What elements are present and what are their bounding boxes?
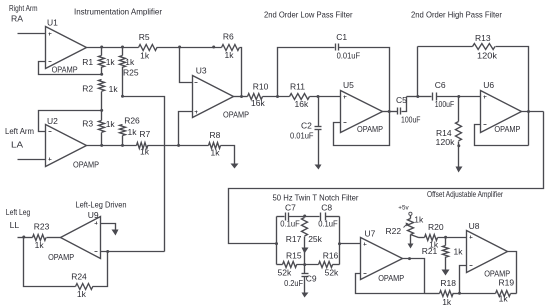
svg-text:R26: R26 (124, 116, 140, 126)
resistor R21 (445, 238, 447, 246)
svg-text:R6: R6 (223, 31, 234, 41)
svg-text:U2: U2 (47, 116, 58, 126)
svg-text:R11: R11 (290, 82, 305, 92)
svg-text:OPAMP: OPAMP (48, 253, 74, 262)
svg-text:25k: 25k (308, 234, 322, 244)
resistor R14 (458, 97, 460, 122)
wire U6 feedback loop (475, 125, 529, 146)
wire U6 output (522, 111, 544, 113)
node C7-C8 junction (303, 215, 306, 218)
op-amp U5 (341, 91, 383, 133)
wire R11 to U5 (310, 96, 341, 98)
svg-text:OPAMP: OPAMP (73, 160, 99, 169)
wire R13 top line (418, 46, 473, 48)
wire U9 inv line (101, 251, 165, 253)
wire U1 feedback (39, 62, 102, 75)
resistor R18 (425, 293, 440, 295)
node R1-R2 junction (100, 73, 103, 76)
capacitor C6 (418, 96, 432, 98)
resistor R15 (277, 264, 283, 266)
svg-text:R19: R19 (499, 278, 515, 288)
wire U9 noninv to ground (101, 224, 116, 230)
node U7 out junction (408, 257, 411, 260)
capacitor C8 (320, 213, 322, 221)
svg-text:R8: R8 (210, 130, 221, 140)
wire U7 feedback loop (356, 274, 425, 294)
wire U1 output line (87, 47, 139, 49)
resistor R19 (460, 293, 496, 295)
svg-text:0.1uF: 0.1uF (280, 219, 300, 229)
resistor R20 (419, 237, 425, 239)
wire U8 output (508, 252, 517, 294)
wire common-mode sense (123, 97, 165, 252)
op-amp U2 (46, 125, 87, 167)
node U5 out junction (388, 110, 391, 113)
op-amp U7 (361, 238, 403, 280)
svg-text:RA: RA (11, 13, 23, 23)
svg-text:1k: 1k (499, 293, 509, 303)
svg-text:1k: 1k (225, 50, 235, 60)
wire R7 to R8 (148, 145, 209, 147)
resistor R26 (120, 125, 126, 136)
resistor R23 (33, 235, 46, 241)
node R25-R26 junction (121, 95, 124, 98)
resistor R16 (319, 262, 333, 268)
svg-text:2nd Order Low Pass Filter: 2nd Order Low Pass Filter (264, 10, 353, 20)
svg-text:C7: C7 (285, 203, 296, 213)
svg-text:0.1uF: 0.1uF (318, 219, 338, 229)
wire U3 inv feedback (180, 48, 193, 83)
node R18-R19 junction (458, 292, 461, 295)
svg-text:R16: R16 (323, 251, 339, 261)
svg-text:R25: R25 (123, 68, 139, 78)
svg-text:U3: U3 (196, 65, 207, 75)
resistor R11 (290, 94, 310, 100)
svg-text:OPAMP: OPAMP (223, 110, 249, 119)
node R2-R3 junction (100, 109, 103, 112)
ground R14 (456, 167, 463, 173)
svg-text:R10: R10 (253, 82, 269, 92)
wire U5 output (383, 111, 390, 113)
svg-text:R23: R23 (34, 222, 50, 232)
svg-text:120k: 120k (436, 137, 456, 147)
wire U3 noninv input (179, 112, 193, 146)
svg-text:1k: 1k (140, 51, 150, 61)
svg-text:R21: R21 (422, 246, 438, 256)
svg-text:C5: C5 (396, 95, 407, 105)
wire R13 to output (496, 47, 529, 146)
capacitor C1 (278, 48, 335, 97)
node U6 out junction (527, 110, 530, 113)
svg-text:R18: R18 (440, 278, 456, 288)
svg-text:1k: 1k (109, 84, 119, 94)
node R26 bottom junction (121, 144, 124, 147)
svg-text:1k: 1k (128, 127, 138, 137)
svg-text:R3: R3 (82, 118, 93, 128)
svg-text:1k: 1k (211, 148, 221, 158)
svg-text:100uF: 100uF (435, 99, 455, 109)
svg-text:R24: R24 (71, 272, 87, 282)
svg-text:OPAMP: OPAMP (357, 125, 383, 134)
svg-text:U5: U5 (343, 80, 354, 90)
svg-text:C8: C8 (321, 203, 332, 213)
svg-text:1k: 1k (35, 240, 45, 250)
svg-text:C1: C1 (336, 32, 347, 42)
svg-text:LL: LL (10, 220, 20, 230)
resistor R3 (101, 111, 103, 121)
wire HPF feedback riser (407, 96, 418, 98)
svg-text:1k: 1k (106, 119, 116, 129)
node R20-R21 junction (444, 236, 447, 239)
resistor R24 (76, 284, 93, 290)
svg-text:U1: U1 (47, 17, 58, 27)
svg-text:1k: 1k (77, 289, 87, 299)
svg-text:52k: 52k (278, 268, 292, 278)
svg-text:1k: 1k (454, 247, 464, 257)
svg-text:0.01uF: 0.01uF (290, 131, 314, 141)
resistor R25 (122, 48, 124, 56)
potentiometer R22 (410, 216, 412, 219)
wire twin-T right rail (339, 217, 341, 265)
wire RA input (18, 33, 46, 35)
svg-text:OPAMP: OPAMP (52, 65, 78, 74)
svg-text:U6: U6 (483, 80, 494, 90)
ground C9 (302, 293, 309, 298)
node R25 top junction (121, 46, 124, 49)
wire U5 feedback loop (334, 112, 390, 146)
wire U2 output line (87, 145, 137, 147)
wire U8 inv input (460, 266, 467, 294)
wire LA input (18, 159, 46, 161)
resistor R5 (139, 45, 157, 51)
node C1 tap junction (276, 95, 279, 98)
op-amp U6 (481, 91, 522, 133)
svg-text:0.2uF: 0.2uF (284, 278, 303, 288)
wire R8 to ground (221, 146, 235, 164)
resistor R10 (248, 94, 263, 100)
op-amp U3 (193, 76, 234, 118)
svg-text:Instrumentation Amplifier: Instrumentation Amplifier (74, 6, 162, 16)
wire R6 to U3 output (240, 48, 242, 97)
wire U2 feedback (39, 111, 102, 132)
node twin-T input (275, 242, 278, 245)
op-amp U1 (46, 27, 87, 69)
resistor R8 (209, 143, 221, 149)
wire HPF out return (229, 112, 544, 244)
svg-text:R5: R5 (139, 32, 150, 42)
wire U7 output (403, 259, 425, 294)
ground C2 (315, 165, 322, 170)
svg-text:Left-Leg Driven: Left-Leg Driven (76, 199, 127, 209)
svg-text:52k: 52k (325, 268, 339, 278)
svg-text:R13: R13 (475, 33, 491, 43)
capacitor C2 (318, 97, 320, 127)
node R14 tap (457, 95, 460, 98)
node U3 out junction (240, 95, 243, 98)
svg-text:R22: R22 (386, 226, 402, 236)
svg-text:0.01uF: 0.01uF (337, 50, 361, 60)
wire U3 output (234, 96, 248, 98)
svg-text:U8: U8 (469, 221, 480, 231)
svg-text:Left Arm: Left Arm (5, 126, 34, 136)
node U3 noninv junction (177, 144, 180, 147)
svg-text:R2: R2 (82, 83, 93, 93)
svg-text:OPAMP: OPAMP (494, 125, 520, 134)
resistor R6 (222, 45, 240, 51)
svg-text:U9: U9 (88, 210, 99, 220)
capacitor C7 (277, 216, 285, 218)
node HPF C6 tap (416, 95, 419, 98)
svg-text:R17: R17 (286, 234, 302, 244)
wire R15 to R16 (297, 264, 319, 266)
svg-text:U7: U7 (365, 228, 376, 238)
node R3 bottom junction (100, 144, 103, 147)
svg-text:R20: R20 (428, 222, 444, 232)
resistor R2 (99, 80, 105, 92)
wire R5 to R6 (157, 47, 222, 49)
svg-text:16k: 16k (251, 98, 265, 108)
resistor R7 (137, 143, 148, 149)
node C2 tap junction (317, 95, 320, 98)
svg-text:LA: LA (11, 140, 24, 150)
svg-text:1k: 1k (106, 57, 116, 67)
svg-text:R15: R15 (286, 251, 302, 261)
ground R22 (408, 244, 414, 249)
svg-text:100uF: 100uF (401, 114, 421, 124)
svg-text:120k: 120k (477, 51, 498, 61)
svg-text:C6: C6 (435, 80, 446, 90)
svg-text:1k: 1k (414, 215, 424, 225)
svg-text:1k: 1k (442, 297, 452, 307)
resistor R13 (473, 44, 496, 50)
svg-text:Offset Adjustable Amplifier: Offset Adjustable Amplifier (427, 189, 503, 199)
svg-text:R1: R1 (82, 57, 93, 67)
op-amp U8 (467, 231, 508, 273)
resistor R17 (302, 218, 308, 236)
node R14 lower junction (457, 144, 460, 147)
svg-text:1k: 1k (125, 57, 135, 67)
wire R10 to R11 (263, 96, 290, 98)
resistor R1 (101, 48, 103, 56)
wire R24 loop (24, 238, 76, 287)
ground R21 (442, 270, 450, 276)
svg-text:16k: 16k (295, 99, 309, 109)
svg-text:1k: 1k (140, 147, 150, 157)
svg-text:C2: C2 (301, 121, 312, 131)
wire twin-T out to U7 (340, 243, 361, 245)
svg-text:2nd Order High Pass Filter: 2nd Order High Pass Filter (411, 10, 502, 20)
capacitor C5 (390, 111, 398, 113)
svg-text:OPAMP: OPAMP (378, 274, 404, 283)
op-amp U9 (61, 217, 101, 259)
ground U9 (112, 230, 119, 236)
wire twin-T left rail (276, 217, 278, 265)
svg-text:50 Hz Twin T Notch Filter: 50 Hz Twin T Notch Filter (273, 192, 359, 202)
ground R8 (231, 164, 239, 169)
wire R24 to U9 inv (93, 252, 108, 287)
node U1 out junction (100, 46, 103, 49)
node R6 left junction (212, 46, 215, 49)
svg-text:Left Leg: Left Leg (6, 207, 31, 217)
svg-text:R7: R7 (139, 129, 150, 139)
svg-text:Right Arm: Right Arm (9, 3, 38, 13)
svg-text:C9: C9 (306, 274, 317, 284)
node U9 inv junction (106, 250, 109, 253)
svg-text:+5v: +5v (398, 204, 409, 211)
node R15-R16 junction (303, 263, 306, 266)
node twin-T output (338, 242, 341, 245)
node U3 inv tap (178, 46, 181, 49)
capacitor C9 (304, 265, 306, 274)
wire LL input (18, 237, 33, 239)
wire pot wiper tap (411, 235, 419, 238)
node LL junction (22, 236, 25, 239)
